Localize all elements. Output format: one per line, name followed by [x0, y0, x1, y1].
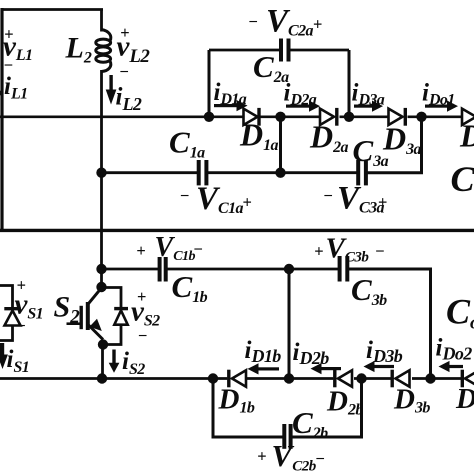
arrow i_D1a [214, 100, 248, 111]
arrow i_Do1 [425, 101, 458, 112]
rail A: wire segment left of D1a [0, 116, 244, 119]
svg-text:−: − [249, 12, 258, 31]
node: D1b cathode / C3b branch [284, 373, 294, 383]
svg-text:L2: L2 [65, 32, 92, 67]
wire: C2a bracket top left [209, 49, 281, 52]
svg-text:iD2b: iD2b [293, 339, 330, 368]
capacitor C2b [282, 424, 286, 449]
svg-text:C3b: C3b [351, 272, 387, 309]
diode D3b [391, 370, 394, 388]
arrow i_D2a [286, 101, 320, 112]
wire: vertical from C1b/C3b node down to rail B [288, 269, 291, 379]
svg-text:+: + [378, 192, 387, 211]
svg-text:−: − [180, 186, 189, 205]
rail B: wire segment D2b to D3b [354, 377, 391, 380]
svg-text:iS2: iS2 [122, 348, 145, 378]
capacitor C1b [158, 257, 162, 282]
node: S2 at rail B [97, 373, 107, 383]
svg-text:−: − [4, 56, 13, 75]
svg-text:−: − [324, 186, 333, 205]
node: D2a cathode / C2a right tap [344, 112, 354, 122]
wire: C3b right then down to rail B [347, 269, 430, 379]
node: C3b/D1b tap [284, 264, 294, 274]
svg-text:iDo2: iDo2 [436, 335, 473, 364]
capacitor C2a [279, 39, 283, 62]
wire: C2a bracket right vertical [348, 50, 351, 117]
diode D2a [320, 109, 334, 125]
node: C1a line below D1a cathode [275, 168, 285, 178]
rail B: wire segment D1b to D2b [246, 377, 333, 380]
svg-text:−: − [375, 242, 384, 261]
rail A: wire segment D1a to D2a [260, 116, 320, 119]
node: S2 emitter join [98, 339, 108, 349]
svg-text:iL1: iL1 [4, 73, 28, 103]
svg-text:iD1b: iD1b [245, 337, 282, 366]
svg-text:iDo1: iDo1 [422, 80, 455, 109]
svg-text:iS1: iS1 [7, 346, 30, 376]
diode D3a [389, 109, 403, 125]
svg-text:D1b: D1b [218, 384, 255, 417]
node: D2b anode / C2b right tap [356, 373, 366, 383]
wire: vertical from D1a cathode node down to C1a line [279, 117, 282, 173]
wire: S2 emitter to rail B [101, 345, 104, 379]
svg-text:Co1: Co1 [451, 159, 474, 201]
svg-text:iL2: iL2 [116, 84, 142, 115]
svg-text:iD2a: iD2a [284, 80, 317, 109]
svg-text:iD1a: iD1a [214, 79, 247, 108]
diode D2b [333, 370, 336, 388]
svg-text:VC1a: VC1a [196, 181, 243, 217]
svg-text:D2a: D2a [309, 119, 349, 157]
diode Do1 (cut off at right edge) [462, 109, 474, 125]
svg-text:D1a: D1a [239, 117, 279, 155]
wire: C2b bracket left vertical and bottom left [213, 379, 283, 438]
wire: C3a right then up to rail A [366, 117, 422, 173]
arrow i_D3a [354, 101, 383, 112]
wire: left rail vertical (input, cut off at edge) [0, 8, 3, 232]
arrow i_S1 (cut off at left edge) [0, 343, 8, 369]
svg-text:D: D [455, 383, 474, 415]
arrow i_S2 [109, 350, 120, 373]
wire: L2 branch from coil down to C1a node (crosses rail A without dot) [100, 70, 103, 174]
arrow i_D1b [248, 363, 280, 374]
rail B: wire segment D3b to Do2 [412, 377, 462, 380]
wire: C2a bracket left vertical [208, 50, 211, 117]
svg-text:+: + [136, 241, 145, 260]
rail A: wire segment D3a to Do1 [408, 116, 463, 119]
arrow i_L1 remnant at left edge [0, 91, 3, 96]
svg-text:−: − [120, 62, 129, 81]
node: D1b anode / C2b tap [208, 373, 218, 383]
capacitor C3a [356, 160, 360, 185]
svg-text:iD3b: iD3b [366, 337, 403, 366]
diode D1a [244, 109, 258, 125]
svg-text:−: − [194, 239, 203, 258]
svg-text:D: D [459, 118, 474, 154]
node: C1b tap on S2 branch [96, 264, 106, 274]
wire: C2a bracket top right [289, 49, 350, 52]
diode Do2 (cut off at right edge) [461, 370, 464, 388]
svg-text:Co2: Co2 [446, 292, 474, 334]
arrow i_D2b [311, 363, 342, 374]
node: D3b anode / C3b right leg [425, 373, 435, 383]
arrow i_D3b [364, 361, 395, 372]
rail A: wire segment D2a to D3a [340, 116, 389, 119]
svg-text:C2b: C2b [292, 405, 328, 442]
node: C1a line at L2 branch [96, 168, 106, 178]
wire: top horizontal from left rail to L2 [1, 8, 104, 11]
node: D3a cathode / C3a tap [416, 112, 426, 122]
node: S2 split upper [96, 282, 106, 292]
svg-text:+: + [257, 447, 266, 466]
wire: C1a line from L2 branch to C1a [102, 171, 198, 174]
svg-text:−: − [138, 326, 147, 345]
svg-text:D3b: D3b [393, 384, 430, 417]
wire: C1b to C3b through mid node [166, 268, 338, 271]
svg-text:VC1b: VC1b [155, 232, 196, 264]
wire: L2/S2 branch from C1a line down to S2 split node [100, 173, 103, 286]
switch S1 body diode branch (cut off at left edge) [0, 286, 13, 309]
svg-text:VC2a: VC2a [266, 4, 313, 40]
inductor L2 [96, 30, 111, 72]
capacitor C3b [338, 256, 342, 282]
svg-text:−: − [316, 449, 325, 468]
rail B: wire segment left of D1b [0, 377, 227, 380]
svg-text:VC2b: VC2b [272, 438, 317, 474]
wire: L2 branch upper stub [100, 10, 103, 32]
transistor S2 (IGBT) [67, 287, 104, 339]
svg-text:C1a: C1a [169, 125, 205, 162]
svg-text:−: − [16, 316, 25, 335]
wire: C2b bottom right and right vertical [291, 379, 362, 438]
svg-text:+: + [313, 15, 322, 34]
svg-text:S2: S2 [54, 291, 81, 328]
node: D1a cathode / C1a tap [275, 112, 285, 122]
S2 body diode branch [102, 288, 122, 309]
separator wire between phase a and phase b sections [0, 229, 474, 232]
svg-text:+: + [314, 242, 323, 261]
arrow i_L2 [106, 75, 117, 105]
svg-text:iD3a: iD3a [352, 80, 385, 109]
arrow i_Do2 [439, 361, 464, 372]
wire: C1b line left [102, 268, 159, 271]
diode D1b [227, 370, 230, 388]
svg-text:VC3b: VC3b [326, 233, 370, 266]
svg-text:+: + [243, 193, 252, 212]
capacitor C1a [197, 160, 201, 185]
wire: C1a to C3a [206, 171, 356, 174]
svg-text:C1b: C1b [172, 269, 208, 306]
node: D1a anode / C2a tap [204, 112, 214, 122]
svg-text:D2b: D2b [326, 386, 363, 419]
